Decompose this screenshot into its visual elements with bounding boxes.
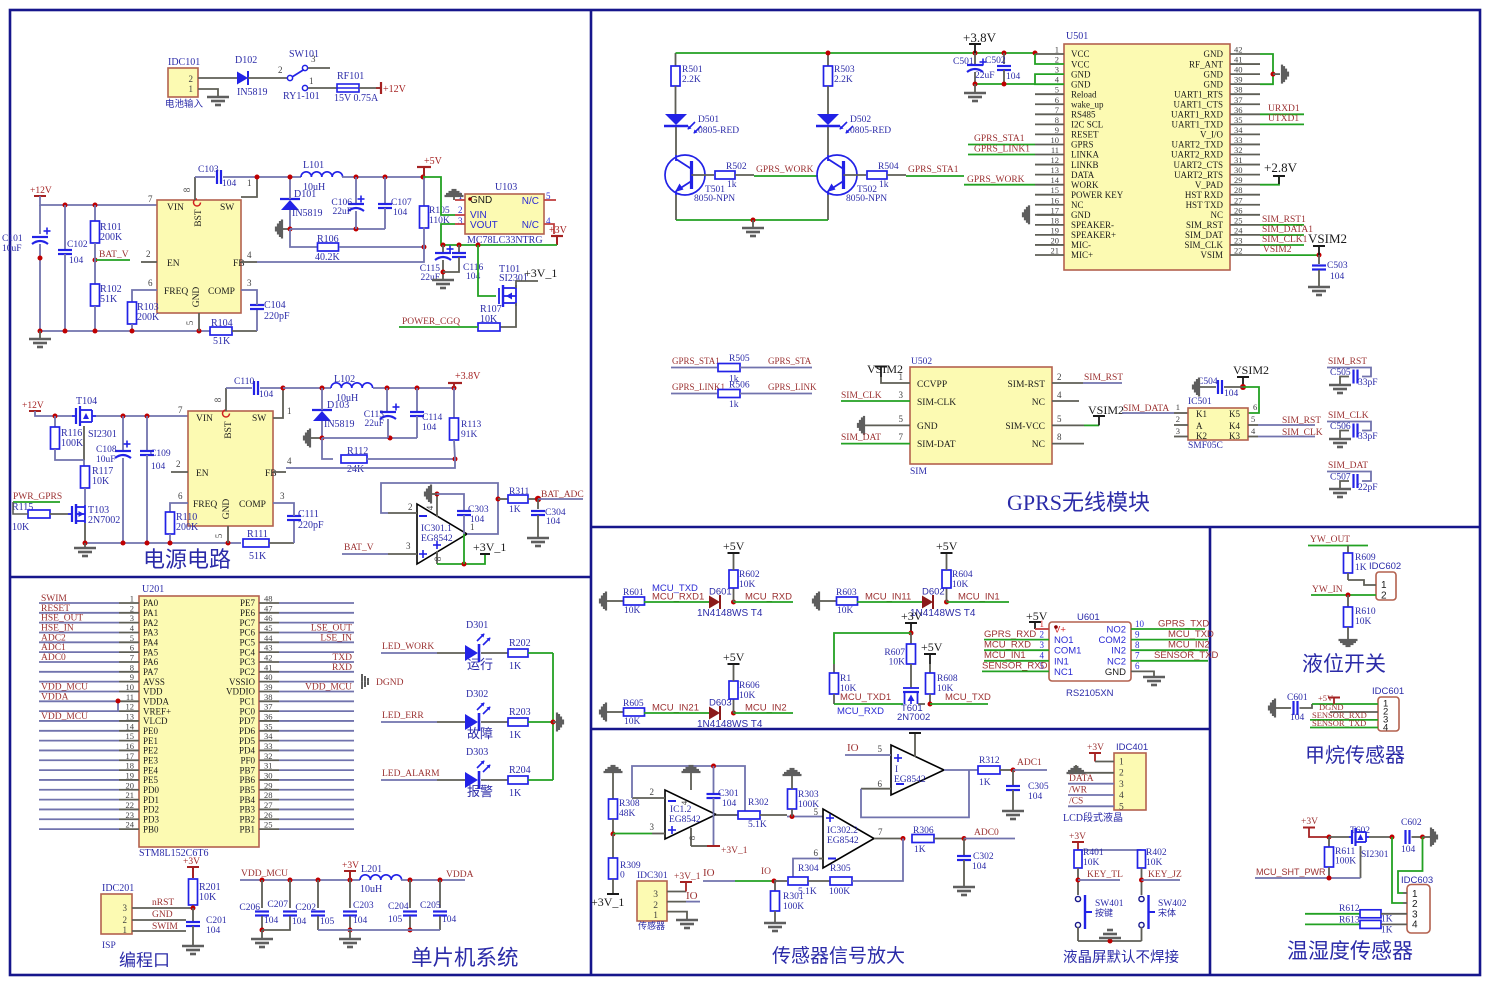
svg-text:10K: 10K bbox=[837, 606, 854, 616]
svg-text:7: 7 bbox=[1055, 105, 1059, 115]
net IO at IDC301 pin2 bbox=[667, 901, 686, 903]
svg-text:10K: 10K bbox=[1355, 617, 1372, 627]
svg-text:4: 4 bbox=[425, 505, 435, 510]
svg-text:29: 29 bbox=[264, 780, 273, 790]
svg-text:VSSIO: VSSIO bbox=[229, 677, 256, 687]
svg-text:I: I bbox=[895, 765, 898, 775]
svg-text:C102: C102 bbox=[67, 240, 88, 250]
svg-text:104: 104 bbox=[972, 862, 987, 872]
resistor R601 10K bbox=[624, 597, 645, 605]
net BAT_ADC bbox=[535, 496, 541, 502]
svg-text:2N7002: 2N7002 bbox=[88, 515, 120, 526]
svg-text:D102: D102 bbox=[235, 55, 257, 66]
svg-text:PC3: PC3 bbox=[239, 657, 255, 667]
svg-text:PWR_GPRS: PWR_GPRS bbox=[13, 492, 62, 502]
resistor R107 10K bbox=[478, 323, 500, 331]
svg-text:2: 2 bbox=[1176, 414, 1180, 424]
svg-text:IDC601: IDC601 bbox=[1372, 686, 1404, 697]
svg-text:NO2: NO2 bbox=[1106, 625, 1126, 636]
svg-text:7: 7 bbox=[130, 652, 134, 662]
resistor R501 2.2K bbox=[675, 53, 677, 66]
capacitor C502 104 bbox=[1003, 53, 1005, 64]
svg-text:SIM-RST: SIM-RST bbox=[1008, 380, 1046, 390]
svg-text:报警: 报警 bbox=[467, 784, 493, 799]
key pullup rail bbox=[1078, 849, 1142, 851]
wire SW101 pin1 to RF101 bbox=[308, 87, 337, 89]
svg-text:6: 6 bbox=[178, 491, 183, 501]
svg-text:NC: NC bbox=[1210, 210, 1223, 220]
svg-text:5: 5 bbox=[130, 633, 134, 643]
svg-text:PE2: PE2 bbox=[143, 746, 158, 756]
svg-text:PB3: PB3 bbox=[239, 805, 255, 815]
ground below R301 bbox=[764, 922, 786, 925]
svg-text:SI2301: SI2301 bbox=[88, 429, 117, 440]
svg-text:+3V_1: +3V_1 bbox=[473, 540, 506, 554]
transistor T501 8050-NPN bbox=[665, 155, 705, 195]
capacitor C102 104 bbox=[64, 205, 66, 249]
wire L101 to +5V node bbox=[342, 176, 423, 178]
U201 pin 2 PA1 wire bbox=[39, 612, 119, 614]
svg-text:IDC602: IDC602 bbox=[1369, 561, 1401, 572]
svg-text:PA4: PA4 bbox=[143, 638, 159, 648]
U501 pin1 pin2 VCC green bbox=[1035, 53, 1064, 55]
svg-text:+12V: +12V bbox=[30, 186, 52, 196]
wire C103 to SW node bbox=[223, 176, 301, 178]
svg-text:3: 3 bbox=[1055, 65, 1059, 75]
U201 pin 46 PC7 wire bbox=[259, 622, 279, 624]
svg-text:10uH: 10uH bbox=[360, 884, 382, 895]
svg-text:C203: C203 bbox=[353, 901, 374, 911]
svg-text:编程口: 编程口 bbox=[119, 951, 170, 970]
svg-text:VSIM: VSIM bbox=[1200, 250, 1223, 260]
svg-text:13: 13 bbox=[1051, 165, 1060, 175]
svg-text:104: 104 bbox=[722, 799, 737, 809]
svg-text:21: 21 bbox=[126, 790, 135, 800]
IDC201 pin1 SWIM wire bbox=[132, 930, 186, 932]
svg-text:0805-RED: 0805-RED bbox=[850, 126, 891, 136]
svg-text:17: 17 bbox=[126, 751, 135, 761]
svg-text:9: 9 bbox=[1055, 125, 1059, 135]
svg-text:PE6: PE6 bbox=[240, 608, 256, 618]
transistor T101 SI2301 bbox=[478, 245, 496, 296]
resistor R112 24K bbox=[322, 438, 333, 459]
svg-text:VDD_MCU: VDD_MCU bbox=[41, 682, 88, 692]
svg-text:R112: R112 bbox=[347, 446, 368, 457]
capacitor C302 104 bbox=[963, 839, 965, 856]
svg-text:48K: 48K bbox=[619, 809, 636, 819]
diode D102 bbox=[237, 72, 248, 85]
svg-text:DATA: DATA bbox=[1071, 170, 1095, 180]
svg-text:6: 6 bbox=[148, 278, 153, 288]
capacitor C205 bbox=[439, 880, 441, 908]
ground arrow LED common bbox=[553, 721, 557, 723]
svg-text:6: 6 bbox=[1135, 661, 1140, 671]
U201 pin 16 PE2 wire bbox=[39, 749, 119, 751]
U201 pin 32 PF0 wire bbox=[259, 759, 279, 761]
ground below C304 bbox=[527, 537, 549, 540]
svg-text:L102: L102 bbox=[334, 374, 355, 385]
IDC301 pin3 +3V_1 bbox=[667, 891, 686, 893]
svg-text:10K: 10K bbox=[480, 314, 498, 325]
svg-text:SWIM: SWIM bbox=[41, 594, 67, 604]
capacitor C113 22uF bbox=[386, 388, 388, 411]
svg-text:28: 28 bbox=[1234, 185, 1243, 195]
ground arrow left of C504 bbox=[1192, 385, 1194, 390]
svg-text:MCU_IN11: MCU_IN11 bbox=[865, 592, 911, 603]
svg-text:0805-RED: 0805-RED bbox=[698, 126, 739, 136]
svg-text:RXD: RXD bbox=[332, 663, 352, 673]
svg-text:MIC-: MIC- bbox=[1071, 240, 1091, 250]
U201 pin 36 PD7 wire bbox=[259, 720, 279, 722]
svg-text:2.2K: 2.2K bbox=[682, 75, 701, 85]
green wire to IDC603 pin1 bbox=[1398, 837, 1423, 893]
svg-text:C114: C114 bbox=[422, 413, 442, 423]
capacitor C207 bbox=[289, 880, 291, 908]
U201 pin 22 PD2 wire bbox=[39, 808, 119, 810]
svg-text:MCU_RXD: MCU_RXD bbox=[837, 706, 884, 717]
svg-text:104: 104 bbox=[222, 179, 237, 189]
svg-text:+3V: +3V bbox=[1069, 832, 1086, 842]
svg-text:40: 40 bbox=[264, 672, 273, 682]
svg-text:5: 5 bbox=[878, 744, 883, 754]
svg-text:R312: R312 bbox=[979, 756, 1000, 766]
capacitor C101 10uF bbox=[39, 205, 41, 234]
svg-text:C101: C101 bbox=[2, 234, 23, 244]
svg-text:100K: 100K bbox=[1335, 857, 1356, 867]
svg-text:40: 40 bbox=[1234, 65, 1243, 75]
svg-text:LED_ERR: LED_ERR bbox=[382, 711, 424, 721]
svg-text:100K: 100K bbox=[829, 887, 850, 897]
svg-text:4: 4 bbox=[1383, 723, 1388, 734]
svg-text:MCU_IN2: MCU_IN2 bbox=[1168, 640, 1210, 651]
svg-text:+5V: +5V bbox=[723, 539, 745, 553]
svg-text:R301: R301 bbox=[783, 892, 804, 902]
svg-text:HST RXD: HST RXD bbox=[1185, 190, 1224, 200]
svg-text:37: 37 bbox=[264, 702, 273, 712]
capacitor C204 bbox=[409, 880, 411, 908]
svg-text:HSE_OUT: HSE_OUT bbox=[41, 614, 83, 624]
svg-text:2: 2 bbox=[130, 603, 134, 613]
svg-text:51K: 51K bbox=[100, 294, 118, 305]
green wire +3V to R1 bbox=[834, 633, 911, 664]
svg-text:+3.8V: +3.8V bbox=[963, 30, 997, 45]
svg-text:TXD: TXD bbox=[332, 653, 352, 663]
LED D501 bbox=[665, 114, 687, 125]
wire MCU_RXD row bbox=[834, 703, 903, 705]
svg-text:14: 14 bbox=[1051, 175, 1060, 185]
svg-text:PC7: PC7 bbox=[239, 618, 255, 628]
svg-text:GPRS_TXD: GPRS_TXD bbox=[1158, 619, 1209, 630]
svg-text:12: 12 bbox=[126, 702, 135, 712]
svg-text:GND: GND bbox=[222, 499, 232, 520]
op-amp IC302.2 EG8542 bbox=[823, 809, 874, 868]
svg-text:PC2: PC2 bbox=[239, 667, 255, 677]
svg-text:8: 8 bbox=[1057, 432, 1062, 442]
svg-text:GND: GND bbox=[470, 195, 492, 206]
svg-text:PD5: PD5 bbox=[239, 736, 256, 746]
svg-text:2: 2 bbox=[650, 787, 655, 797]
svg-text:10K: 10K bbox=[624, 717, 641, 727]
svg-text:GND: GND bbox=[1204, 49, 1224, 59]
svg-text:1N4148WS T4: 1N4148WS T4 bbox=[697, 719, 763, 730]
svg-text:+3V_1: +3V_1 bbox=[524, 266, 557, 280]
svg-text:FREQ: FREQ bbox=[164, 287, 188, 297]
svg-text:SW: SW bbox=[220, 203, 234, 213]
svg-text:7: 7 bbox=[1135, 651, 1140, 661]
resistor R201 10K bbox=[189, 879, 198, 905]
U201 pin 25 PB1 wire bbox=[259, 828, 279, 830]
svg-text:1K: 1K bbox=[1381, 926, 1393, 936]
svg-text:VREF+: VREF+ bbox=[143, 706, 171, 716]
svg-text:8: 8 bbox=[1135, 640, 1140, 650]
svg-text:BST: BST bbox=[194, 209, 204, 227]
svg-text:2: 2 bbox=[653, 901, 658, 911]
svg-text:3: 3 bbox=[653, 890, 658, 900]
svg-text:29: 29 bbox=[1234, 175, 1243, 185]
svg-text:SENSOR_TXD: SENSOR_TXD bbox=[1154, 650, 1219, 661]
svg-text:1: 1 bbox=[1381, 580, 1387, 591]
U201 pin 27 PB3 wire bbox=[259, 808, 279, 810]
svg-text:+3V_1: +3V_1 bbox=[721, 846, 748, 856]
svg-text:HST TXD: HST TXD bbox=[1186, 200, 1224, 210]
SIM socket U502 box bbox=[910, 367, 1052, 464]
capacitor C115 22uF bbox=[442, 245, 444, 252]
svg-text:104: 104 bbox=[1330, 272, 1345, 282]
svg-text:+5V: +5V bbox=[936, 539, 958, 553]
svg-text:104: 104 bbox=[151, 462, 166, 472]
svg-text:SIM_DAT: SIM_DAT bbox=[1185, 230, 1224, 240]
svg-text:43: 43 bbox=[264, 643, 273, 653]
pin 5 GND stub bbox=[198, 313, 200, 331]
svg-text:C207: C207 bbox=[267, 900, 288, 910]
svg-text:3: 3 bbox=[1119, 780, 1124, 790]
svg-text:R202: R202 bbox=[509, 638, 531, 649]
svg-text:+3V: +3V bbox=[549, 225, 568, 236]
capacitor C106 22uF bbox=[355, 177, 357, 203]
svg-text:IO: IO bbox=[761, 867, 771, 877]
svg-text:U103: U103 bbox=[495, 182, 517, 193]
svg-text:C108: C108 bbox=[96, 445, 117, 455]
svg-text:8: 8 bbox=[1055, 115, 1059, 125]
svg-text:C502: C502 bbox=[985, 56, 1006, 66]
capacitor C602 104 bbox=[1404, 830, 1406, 844]
svg-text:SIM_CLK1: SIM_CLK1 bbox=[1262, 235, 1308, 245]
svg-text:UART2_TXD: UART2_TXD bbox=[1172, 140, 1224, 150]
resistor R104 51K bbox=[210, 327, 232, 335]
svg-text:PB7: PB7 bbox=[239, 765, 255, 775]
svg-text:LED_ALARM: LED_ALARM bbox=[382, 769, 440, 779]
svg-text:FREQ: FREQ bbox=[193, 500, 217, 510]
svg-text:23: 23 bbox=[1234, 235, 1243, 245]
svg-text:PA6: PA6 bbox=[143, 657, 159, 667]
U201 pin 35 PD6 wire bbox=[259, 730, 279, 732]
svg-text:IDC201: IDC201 bbox=[102, 883, 134, 894]
svg-text:YW_OUT: YW_OUT bbox=[1310, 535, 1350, 545]
svg-text:2: 2 bbox=[176, 459, 181, 469]
svg-text:6: 6 bbox=[130, 643, 134, 653]
resistor R606 10K bbox=[733, 699, 735, 713]
svg-text:15V 0.75A: 15V 0.75A bbox=[334, 93, 379, 104]
svg-text:液晶屏默认不焊接: 液晶屏默认不焊接 bbox=[1063, 949, 1179, 966]
svg-text:1: 1 bbox=[123, 925, 128, 935]
svg-text:41: 41 bbox=[264, 662, 273, 672]
ESD array IC501 SMF05C bbox=[1188, 408, 1248, 440]
svg-text:PD1: PD1 bbox=[143, 795, 159, 805]
LED common green wire bbox=[552, 653, 554, 780]
svg-text:1: 1 bbox=[130, 594, 134, 604]
svg-text:GND: GND bbox=[152, 910, 173, 920]
svg-text:16: 16 bbox=[1051, 195, 1060, 205]
svg-text:10K: 10K bbox=[1146, 858, 1163, 868]
svg-text:C107: C107 bbox=[391, 198, 412, 208]
svg-text:105: 105 bbox=[320, 917, 335, 927]
svg-text:38: 38 bbox=[1234, 85, 1243, 95]
svg-text:3: 3 bbox=[123, 903, 128, 913]
svg-text:R104: R104 bbox=[211, 318, 233, 329]
svg-text:8050-NPN: 8050-NPN bbox=[846, 194, 887, 204]
svg-text:MCU_RXD: MCU_RXD bbox=[984, 640, 1031, 651]
svg-text:C601: C601 bbox=[1287, 693, 1308, 703]
svg-text:C302: C302 bbox=[973, 852, 994, 862]
svg-text:1: 1 bbox=[309, 76, 314, 86]
svg-text:V_PAD: V_PAD bbox=[1195, 180, 1224, 190]
svg-text:42: 42 bbox=[264, 652, 273, 662]
U201 pin 9 AVSS wire bbox=[39, 681, 119, 683]
svg-text:2: 2 bbox=[146, 249, 151, 259]
ground below C302 bbox=[953, 886, 975, 889]
svg-text:1k: 1k bbox=[727, 180, 737, 190]
svg-text:1: 1 bbox=[1176, 402, 1180, 412]
svg-text:PB1: PB1 bbox=[239, 824, 255, 834]
ground arrow left of C601 bbox=[1268, 706, 1270, 711]
svg-text:3: 3 bbox=[1176, 426, 1180, 436]
svg-text:3: 3 bbox=[280, 491, 285, 501]
svg-text:104: 104 bbox=[353, 916, 368, 926]
svg-text:故障: 故障 bbox=[467, 726, 493, 741]
svg-text:31: 31 bbox=[264, 761, 273, 771]
IC1.2 pin8 +3V_1 bbox=[690, 828, 692, 846]
svg-text:VDD_MCU: VDD_MCU bbox=[305, 682, 352, 692]
wire to IC302 pin5 bbox=[787, 816, 823, 818]
green +3.8V rail to U501 bbox=[676, 52, 1036, 54]
svg-text:GND: GND bbox=[917, 422, 938, 432]
resistor R304 5.1K bbox=[788, 877, 808, 885]
svg-text:+12V: +12V bbox=[383, 84, 407, 95]
svg-text:41: 41 bbox=[1234, 55, 1243, 65]
power +3V_1 below R309 bbox=[607, 893, 619, 895]
svg-text:VCC: VCC bbox=[1071, 49, 1090, 59]
svg-text:IN2: IN2 bbox=[1111, 646, 1126, 657]
U501 GND pins 42 40 39 green bbox=[1260, 54, 1273, 84]
svg-text:AVSS: AVSS bbox=[143, 677, 165, 687]
svg-text:MCU_RXD: MCU_RXD bbox=[745, 592, 792, 603]
svg-text:10K: 10K bbox=[889, 658, 906, 668]
pin 8 bottom power bbox=[436, 551, 438, 564]
svg-text:R603: R603 bbox=[836, 588, 857, 598]
svg-text:22uF: 22uF bbox=[420, 273, 440, 283]
U201 pin 26 PB2 wire bbox=[259, 818, 279, 820]
LED D502 bbox=[817, 114, 839, 125]
IDC201 pin3 nRST wire bbox=[132, 907, 193, 909]
svg-text:/WR: /WR bbox=[1069, 786, 1088, 796]
svg-text:D501: D501 bbox=[698, 115, 719, 125]
svg-text:R302: R302 bbox=[748, 798, 769, 808]
svg-text:VOUT: VOUT bbox=[470, 220, 498, 231]
wire +3V to T602 bbox=[1329, 836, 1349, 838]
resistor R311 1K bbox=[498, 498, 508, 500]
capacitor C303 104 bbox=[437, 494, 464, 510]
capacitor C104 220pF bbox=[256, 309, 258, 331]
pin 5 GND2 stub bbox=[227, 526, 229, 543]
U201 pin 30 PB6 wire bbox=[259, 779, 279, 781]
svg-text:运行: 运行 bbox=[467, 657, 493, 672]
svg-text:C602: C602 bbox=[1401, 818, 1422, 828]
svg-text:MCU_SHT_PWR: MCU_SHT_PWR bbox=[1256, 867, 1326, 877]
svg-text:12: 12 bbox=[1051, 155, 1060, 165]
svg-text:R401: R401 bbox=[1083, 848, 1104, 858]
svg-text:8: 8 bbox=[433, 556, 443, 561]
svg-text:L201: L201 bbox=[361, 864, 382, 875]
svg-text:33pF: 33pF bbox=[1358, 432, 1378, 442]
svg-text:104: 104 bbox=[292, 917, 307, 927]
svg-text:VSIM2: VSIM2 bbox=[1088, 403, 1124, 417]
GND green rail under C501 C502 bbox=[975, 83, 1035, 85]
svg-text:SMF05C: SMF05C bbox=[1188, 441, 1223, 451]
svg-text:25: 25 bbox=[1234, 215, 1243, 225]
svg-text:IDC603: IDC603 bbox=[1401, 875, 1433, 886]
svg-text:甲烷传感器: 甲烷传感器 bbox=[1305, 744, 1405, 767]
svg-text:D303: D303 bbox=[466, 747, 488, 758]
svg-text:SENSOR_RXD: SENSOR_RXD bbox=[982, 661, 1048, 672]
IC1.2 feedback loop bbox=[632, 766, 745, 815]
svg-text:+5V: +5V bbox=[424, 156, 443, 167]
svg-text:SPEAKER-: SPEAKER- bbox=[1071, 220, 1114, 230]
svg-text:24: 24 bbox=[126, 820, 135, 830]
svg-text:1k: 1k bbox=[729, 400, 739, 410]
resistor R609 1K bbox=[1347, 546, 1349, 554]
ground at keys bbox=[1099, 937, 1121, 940]
svg-text:34: 34 bbox=[264, 731, 273, 741]
svg-text:U502: U502 bbox=[911, 357, 932, 367]
svg-text:6: 6 bbox=[1253, 402, 1257, 412]
svg-text:wake_up: wake_up bbox=[1071, 99, 1104, 109]
resistor R113 91K bbox=[453, 388, 455, 418]
IDC301 pin1 ground bbox=[667, 912, 687, 920]
svg-text:I2C SCL: I2C SCL bbox=[1071, 120, 1103, 130]
svg-text:RS485: RS485 bbox=[1071, 110, 1096, 120]
svg-text:UART1_TXD: UART1_TXD bbox=[1172, 120, 1224, 130]
svg-text:8050-NPN: 8050-NPN bbox=[694, 194, 735, 204]
svg-text:10K: 10K bbox=[199, 892, 217, 903]
svg-text:R612: R612 bbox=[1339, 904, 1360, 914]
svg-text:PE4: PE4 bbox=[143, 765, 159, 775]
resistor R504 1k bbox=[867, 171, 887, 179]
wire D101 anode ground rail bbox=[290, 228, 385, 230]
svg-text:10K: 10K bbox=[739, 691, 756, 701]
svg-text:5: 5 bbox=[1055, 85, 1059, 95]
svg-text:D301: D301 bbox=[466, 620, 488, 631]
svg-text:GPRS_WORK: GPRS_WORK bbox=[756, 165, 814, 175]
inductor L102 bbox=[331, 383, 373, 388]
svg-text:PA7: PA7 bbox=[143, 667, 159, 677]
svg-text:5: 5 bbox=[1119, 802, 1124, 812]
ground arrow R605 bbox=[599, 710, 601, 715]
resistor R312 1K bbox=[978, 766, 1000, 774]
svg-text:MCU_IN1: MCU_IN1 bbox=[984, 650, 1026, 661]
resistor R102 51K bbox=[94, 260, 96, 284]
resistor R608 10K bbox=[929, 664, 931, 673]
T602 gate lead bbox=[1360, 846, 1362, 878]
